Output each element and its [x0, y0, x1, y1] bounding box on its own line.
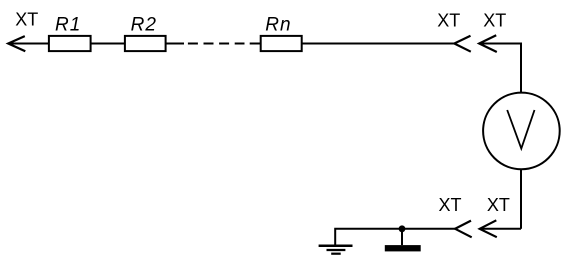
connector XT arrow (top, left half) [454, 36, 471, 52]
connector XT arrow (top, right half) [479, 35, 497, 52]
wire (top right connector to corner) [479, 43, 521, 45]
wire (Rn to right connector) [302, 43, 455, 45]
wire (junction to chassis bar) [401, 229, 403, 245]
svg-text:R2: R2 [131, 14, 157, 35]
connector XT arrow (bottom, left half) [455, 221, 472, 238]
resistor R1 [49, 36, 91, 51]
svg-text:XT: XT [483, 11, 506, 31]
svg-text:XT: XT [437, 11, 460, 31]
wire (voltmeter to bottom corner) [520, 169, 522, 229]
voltmeter PV1 circle [483, 93, 560, 170]
wire (dashed section to Rn) [250, 43, 261, 45]
svg-text:XT: XT [487, 195, 510, 215]
svg-text:Rn: Rn [265, 14, 291, 35]
resistor Rn [261, 36, 302, 51]
wire (vertical, corner down to voltmeter) [520, 43, 522, 94]
wire (bottom corner to right connector) [480, 228, 521, 230]
resistor R2 [125, 36, 166, 51]
node junction dot [399, 225, 406, 232]
wire (bottom, left connector to ground corner) [335, 229, 455, 246]
chassis ground bar [385, 245, 421, 251]
svg-text:XT: XT [15, 10, 38, 30]
wire (left arrow to R1) [8, 43, 48, 45]
svg-text:XT: XT [439, 195, 462, 215]
wire (dashed continuation) [188, 43, 245, 45]
wire (R2 to dashed section) [166, 43, 184, 45]
ground (earth symbol) [319, 244, 353, 247]
svg-text:R1: R1 [55, 14, 81, 35]
connector XT arrow (bottom, right half) [480, 220, 497, 237]
connector XT arrow (left end) [8, 36, 25, 51]
wire (R1 to R2) [91, 43, 125, 45]
voltmeter V mark [507, 110, 534, 149]
